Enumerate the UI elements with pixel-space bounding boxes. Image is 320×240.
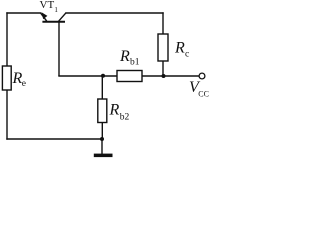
base bar bbox=[42, 21, 65, 23]
wire ground lead bbox=[101, 139, 103, 154]
svg-text:1: 1 bbox=[54, 6, 58, 14]
resistor Rb1 bbox=[117, 71, 142, 82]
svg-text:R: R bbox=[174, 40, 185, 57]
ground bbox=[94, 154, 113, 158]
base lead bbox=[58, 23, 60, 77]
wire base horizontal bbox=[59, 75, 199, 77]
node base/Rb2 junction bbox=[101, 74, 105, 78]
wire top-left (emitter to left rail) bbox=[7, 12, 41, 14]
svg-text:VT: VT bbox=[40, 0, 55, 11]
svg-text:CC: CC bbox=[198, 90, 209, 99]
svg-text:R: R bbox=[119, 48, 130, 65]
wire top-right (collector to Rc) bbox=[66, 12, 163, 14]
emitter arrow bbox=[42, 12, 48, 19]
collector lead bbox=[59, 13, 66, 21]
wire bottom bbox=[7, 138, 102, 140]
resistor Re bbox=[2, 66, 11, 90]
Vcc terminal bbox=[199, 73, 205, 79]
transistor VT1 bbox=[41, 12, 66, 76]
svg-text:c: c bbox=[185, 49, 189, 59]
svg-text:b2: b2 bbox=[120, 112, 130, 122]
wire Rc drop bbox=[162, 13, 164, 76]
resistor Rb2 bbox=[98, 99, 107, 123]
wire Rb2 branch bbox=[101, 76, 103, 139]
svg-text:e: e bbox=[22, 79, 26, 89]
wire left rail bbox=[6, 13, 8, 139]
resistor Rc bbox=[158, 34, 168, 61]
svg-text:R: R bbox=[109, 102, 120, 119]
node Rc/Rb1/Vcc junction bbox=[162, 74, 166, 78]
emitter lead bbox=[41, 13, 47, 21]
node bottom/ground junction bbox=[100, 137, 104, 141]
svg-text:b1: b1 bbox=[130, 57, 140, 67]
